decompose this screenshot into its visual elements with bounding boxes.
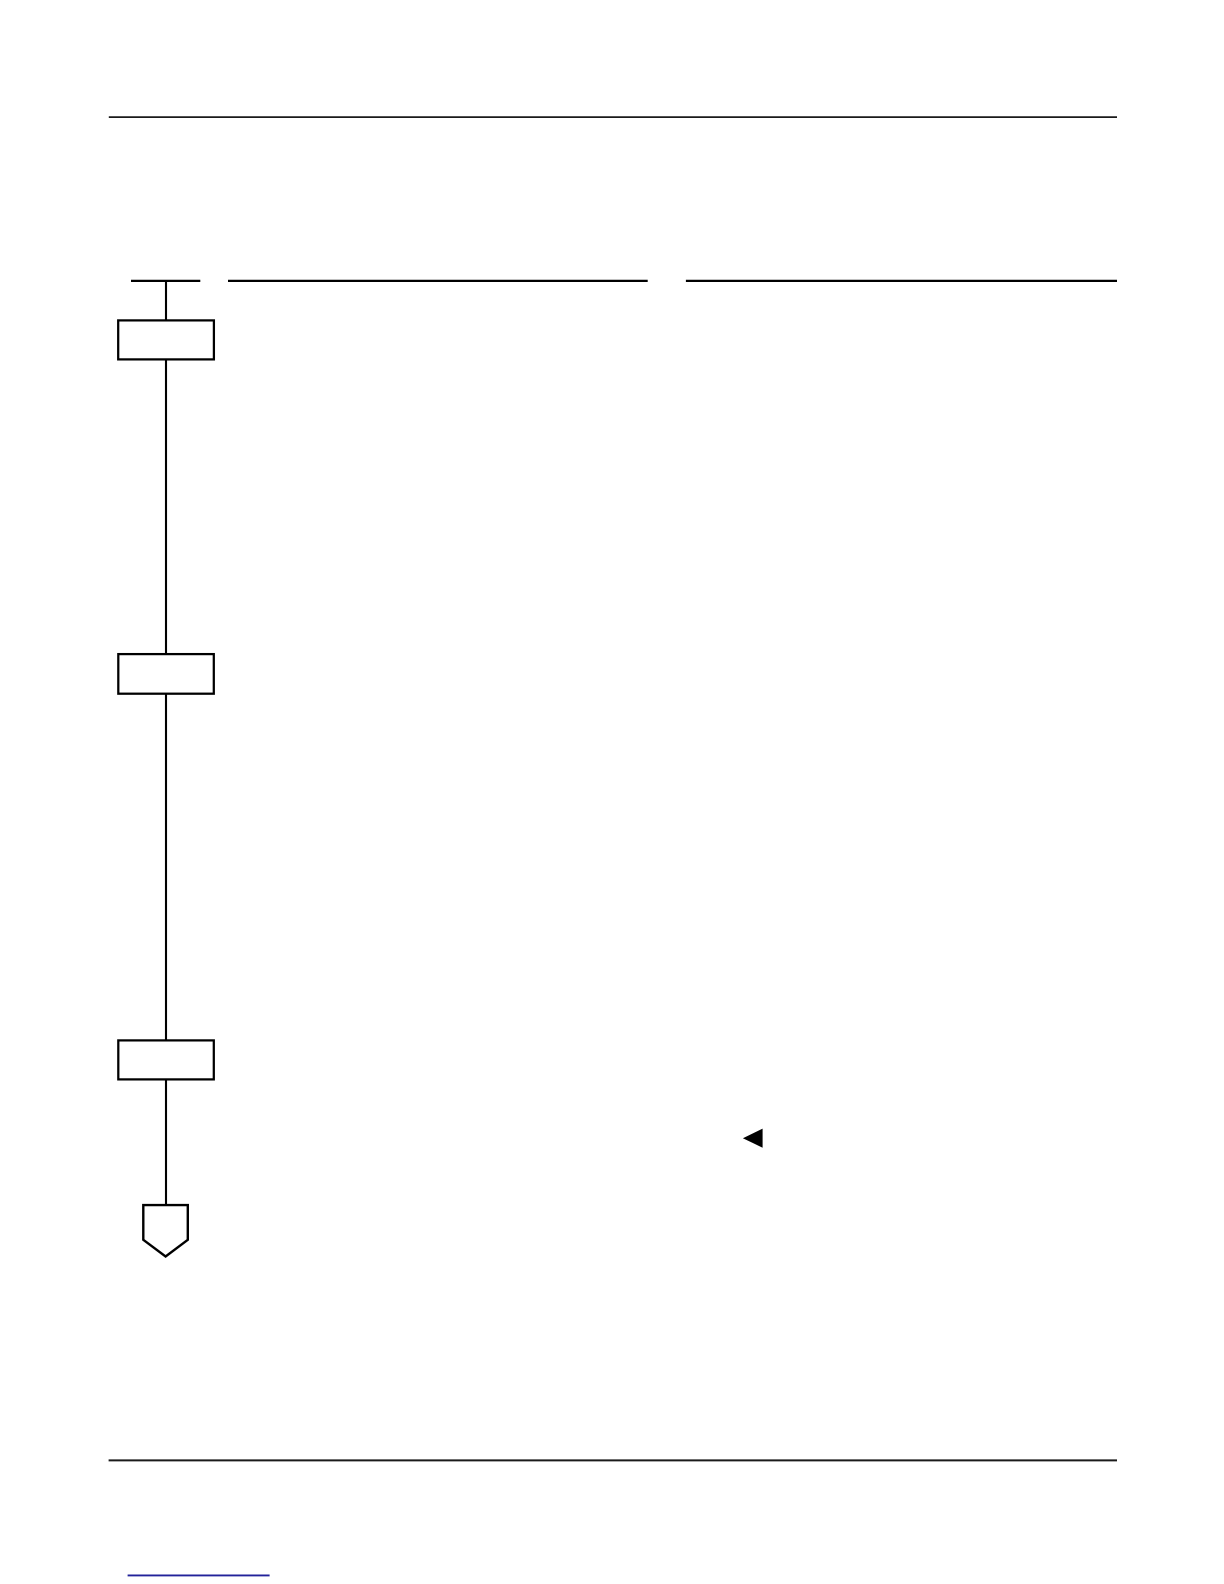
node: top rail tick bbox=[131, 280, 200, 282]
return arrow triangle bbox=[743, 1129, 763, 1148]
terminal pentagon bbox=[143, 1205, 188, 1256]
divider line right bbox=[686, 280, 1117, 282]
divider line left bbox=[228, 280, 648, 282]
footer rule bbox=[109, 1459, 1117, 1461]
footnote link underline bbox=[128, 1574, 270, 1576]
wire: vertical flow line bbox=[165, 280, 167, 1205]
step box 3 bbox=[118, 1040, 214, 1079]
header rule bbox=[109, 116, 1117, 118]
step box 2 bbox=[118, 654, 214, 694]
step box 1 bbox=[118, 320, 214, 359]
